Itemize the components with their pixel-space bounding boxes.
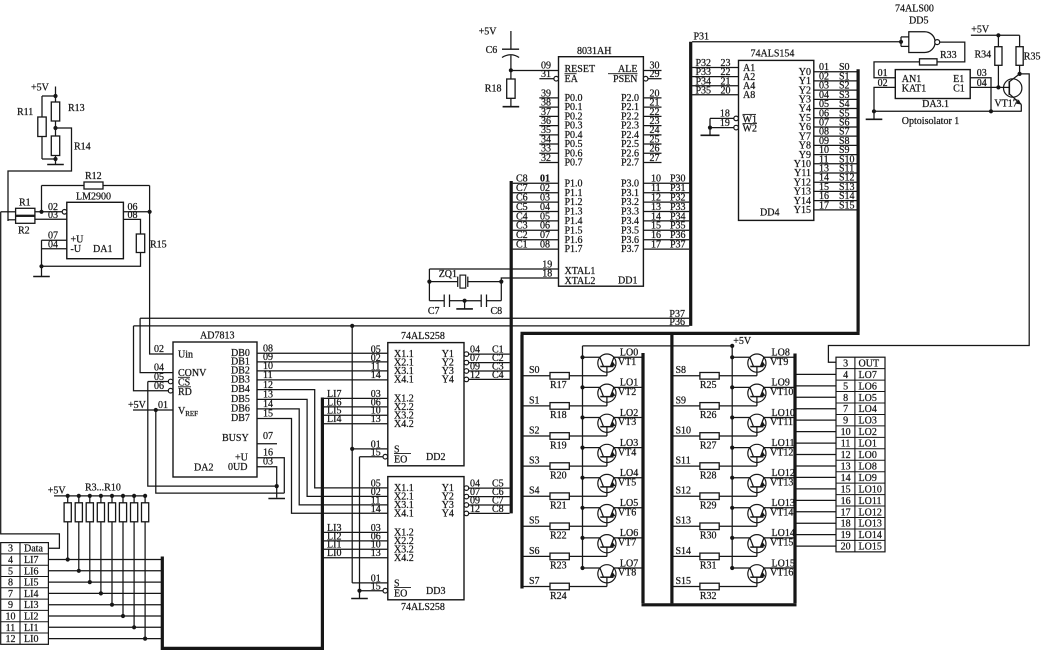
wire S input S1 bbox=[524, 405, 551, 407]
node DA1 ground junction bbox=[39, 264, 43, 268]
svg-text:19: 19 bbox=[841, 530, 851, 541]
svg-text:X4.1: X4.1 bbox=[394, 509, 414, 520]
wire collector VT4 to net LO3 bbox=[614, 447, 642, 449]
svg-text:LO13: LO13 bbox=[859, 519, 882, 530]
svg-text:VT2: VT2 bbox=[618, 387, 636, 398]
svg-text:20: 20 bbox=[841, 542, 851, 553]
wire DB1 to DD2 X2.1 bbox=[257, 361, 388, 363]
wire collector VT10 to net LO9 bbox=[764, 386, 794, 388]
wire Y1 to net S1 bbox=[814, 80, 857, 82]
wire DB2 to DD2 X3.1 bbox=[257, 370, 388, 372]
wire base of VT15 bbox=[719, 555, 757, 557]
wire NAND inputs tied to P31 bbox=[900, 37, 902, 47]
wire base of VT14 bbox=[719, 525, 757, 527]
wire P1.4 to C bus, net C4 bbox=[513, 220, 559, 222]
wire DB4 to DD3 X1.1 bbox=[257, 390, 388, 488]
svg-text:8031AH: 8031AH bbox=[577, 46, 611, 57]
svg-text:X4.2: X4.2 bbox=[394, 419, 414, 430]
node emitter bus tap VT14 bbox=[730, 506, 734, 510]
svg-text:12: 12 bbox=[6, 634, 16, 645]
svg-text:Y4: Y4 bbox=[442, 509, 454, 520]
resistor R17 bbox=[550, 373, 569, 380]
svg-text:17: 17 bbox=[819, 200, 829, 211]
wire S input S15 bbox=[673, 586, 700, 588]
bus P30-P37 thick vertical bbox=[689, 42, 692, 326]
wire P3.6 to P3 bus, net P36 bbox=[643, 239, 689, 241]
wire S input S14 bbox=[673, 555, 700, 557]
svg-text:15: 15 bbox=[841, 484, 851, 495]
svg-text:Uin: Uin bbox=[178, 350, 193, 361]
resistor R27 bbox=[700, 433, 719, 440]
wire LO13 to bus bbox=[797, 522, 837, 524]
svg-text:VT4: VT4 bbox=[618, 447, 636, 458]
node +5V junction bbox=[53, 94, 57, 98]
svg-text:LO5: LO5 bbox=[859, 393, 877, 404]
node S at P36 line bbox=[350, 324, 354, 328]
svg-text:03: 03 bbox=[263, 457, 273, 468]
wire collector VT9 to net LO8 bbox=[764, 356, 794, 358]
wire VT17 emitter to ground line bbox=[1020, 105, 1022, 112]
svg-text:P37: P37 bbox=[670, 240, 686, 251]
svg-text:LO12: LO12 bbox=[859, 507, 882, 518]
svg-text:+5V: +5V bbox=[971, 24, 990, 35]
wire emitter VT15 bbox=[732, 537, 750, 539]
node emitter bus tap VT9 bbox=[730, 355, 734, 359]
svg-text:Data: Data bbox=[24, 544, 43, 555]
svg-text:DA3.1: DA3.1 bbox=[922, 99, 949, 110]
svg-text:LO2: LO2 bbox=[859, 427, 877, 438]
svg-text:12: 12 bbox=[841, 450, 851, 461]
svg-text:VT8: VT8 bbox=[618, 568, 636, 579]
node NAND input junction bbox=[899, 40, 903, 44]
wire base of VT12 bbox=[719, 465, 757, 467]
wire P3.2 to P3 bus, net P32 bbox=[643, 201, 689, 203]
svg-text:W2: W2 bbox=[743, 124, 757, 135]
node R8 to LI2 wire bbox=[121, 614, 125, 618]
svg-text:XTAL1: XTAL1 bbox=[565, 266, 596, 277]
wire Y3 to net S3 bbox=[814, 98, 857, 100]
svg-text:16: 16 bbox=[841, 496, 851, 507]
svg-text:Optoisolator 1: Optoisolator 1 bbox=[902, 116, 960, 127]
svg-text:P36: P36 bbox=[669, 317, 685, 328]
wire LO8 to bus bbox=[797, 465, 837, 467]
svg-text:R34: R34 bbox=[975, 50, 992, 61]
node emitter bus tap VT8 bbox=[580, 566, 584, 570]
svg-text:R14: R14 bbox=[74, 142, 91, 153]
node emitter bus tap VT6 bbox=[580, 506, 584, 510]
wire P3.3 to P3 bus, net P33 bbox=[643, 211, 689, 213]
svg-text:R18: R18 bbox=[485, 84, 502, 95]
svg-text:R11: R11 bbox=[17, 107, 33, 118]
svg-text:C1: C1 bbox=[953, 84, 965, 95]
resistor R4 pull-up bbox=[77, 494, 81, 498]
wire Y11 to net S11 bbox=[814, 172, 857, 174]
wire reset to DD1 pin 09 bbox=[511, 70, 559, 72]
svg-text:DD3: DD3 bbox=[426, 586, 445, 597]
wire emitter VT7 bbox=[583, 537, 600, 539]
wire S input S3 bbox=[524, 465, 551, 467]
wire LI0 row to bus bbox=[48, 638, 162, 640]
wire emitter VT10 bbox=[732, 386, 750, 388]
resistor R21 bbox=[550, 493, 569, 500]
wire Y12 to net S12 bbox=[814, 181, 857, 183]
node E1 ground junction bbox=[989, 109, 993, 113]
node reset junction bbox=[509, 68, 513, 72]
svg-text:74ALS00: 74ALS00 bbox=[895, 4, 934, 15]
wire opto ground line to VT17 emitter bbox=[874, 110, 1022, 112]
svg-text:S4: S4 bbox=[529, 486, 540, 497]
wire R2 to pin 03 bbox=[35, 218, 67, 220]
svg-text:LM2900: LM2900 bbox=[76, 192, 111, 203]
ground under R18 bbox=[510, 98, 512, 106]
wire R11/R14 bottoms bbox=[41, 137, 43, 160]
svg-text:S7: S7 bbox=[529, 576, 540, 587]
svg-text:3: 3 bbox=[843, 358, 848, 369]
node emitter bus tap VT10 bbox=[730, 385, 734, 389]
ground under W1/W2 bbox=[709, 128, 711, 136]
svg-text:03: 03 bbox=[48, 210, 58, 221]
svg-text:74ALS258: 74ALS258 bbox=[401, 331, 445, 342]
svg-text:R21: R21 bbox=[550, 501, 567, 512]
wire LI7 to DD2 X1.2 bbox=[324, 397, 388, 399]
wire LO1 to bus bbox=[797, 442, 837, 444]
svg-text:DA2: DA2 bbox=[194, 463, 213, 474]
ground under R14 bbox=[55, 159, 57, 165]
node +5V rail R34 bbox=[996, 33, 1000, 37]
wire +5V rail to R11/R13 bbox=[42, 95, 56, 97]
svg-text:R23: R23 bbox=[550, 561, 567, 572]
wire emitter VT3 bbox=[583, 417, 600, 419]
pin 02 inverting circle bbox=[62, 210, 67, 215]
svg-text:VT12: VT12 bbox=[770, 447, 793, 458]
node W junction bbox=[708, 126, 712, 130]
bus LO8-LO15 thick vertical bbox=[793, 354, 796, 604]
svg-text:LI1: LI1 bbox=[24, 623, 38, 634]
wire base of VT8 bbox=[569, 586, 607, 588]
svg-text:VT6: VT6 bbox=[618, 508, 636, 519]
svg-text:LO1: LO1 bbox=[859, 439, 877, 450]
svg-text:KAT1: KAT1 bbox=[902, 84, 926, 95]
wire DA1 output down to DA2 Uin bbox=[150, 212, 173, 354]
wire LO11 to bus bbox=[797, 499, 837, 501]
svg-text:LO8: LO8 bbox=[859, 461, 877, 472]
svg-text:DD5: DD5 bbox=[909, 16, 928, 27]
wire LO0 to bus bbox=[797, 454, 837, 456]
wire NAND output to R33 bbox=[937, 42, 965, 62]
node CS/0UD ground junction bbox=[275, 484, 279, 488]
svg-text:14: 14 bbox=[371, 370, 381, 381]
node opto ground junction bbox=[872, 109, 876, 113]
node inverting input junction bbox=[39, 210, 43, 214]
svg-text:R24: R24 bbox=[550, 591, 567, 602]
transistor VT7 symbol bbox=[598, 535, 616, 553]
wire collector VT14 to net LO13 bbox=[764, 507, 794, 509]
svg-text:R35: R35 bbox=[1024, 52, 1041, 63]
wire R13-R14 junction bbox=[55, 121, 57, 136]
wire emitter VT14 bbox=[732, 507, 750, 509]
bus LO0-LO7 thick lines bbox=[641, 353, 644, 603]
svg-text:12: 12 bbox=[470, 370, 480, 381]
wire P1.3 to C bus, net C5 bbox=[513, 211, 559, 213]
wire LI4 row to bus bbox=[48, 592, 162, 594]
svg-text:X4.1: X4.1 bbox=[394, 375, 414, 386]
svg-text:9: 9 bbox=[843, 416, 848, 427]
transistor VT11 symbol bbox=[748, 414, 766, 432]
wire base of VT13 bbox=[719, 495, 757, 497]
resistor R26 bbox=[700, 403, 719, 410]
svg-text:R13: R13 bbox=[68, 103, 85, 114]
wire LO6 to bus bbox=[797, 385, 837, 387]
wire DB3 to DD2 X4.1 bbox=[257, 379, 388, 381]
wire LO2 to bus bbox=[797, 431, 837, 433]
ground under C7/C8 bbox=[464, 301, 466, 309]
wire base of VT6 bbox=[569, 525, 607, 527]
svg-text:A8: A8 bbox=[743, 90, 755, 101]
wire collector VT3 to net LO2 bbox=[614, 417, 642, 419]
svg-text:07: 07 bbox=[263, 431, 273, 442]
svg-text:S0: S0 bbox=[529, 365, 540, 376]
wire P3.5 to P3 bus, net P35 bbox=[643, 229, 689, 231]
resistor R25 bbox=[700, 373, 719, 380]
wire LI5 row to bus bbox=[48, 581, 162, 583]
svg-text:R3...R10: R3...R10 bbox=[85, 483, 121, 494]
svg-text:+5V: +5V bbox=[128, 400, 147, 411]
node emitter bus tap VT13 bbox=[730, 476, 734, 480]
wire LO15 to bus bbox=[797, 545, 837, 547]
node emitter bus tap VT12 bbox=[730, 446, 734, 450]
node S at DD2 bbox=[350, 447, 354, 451]
optoisolator U DA3.1 box bbox=[895, 70, 970, 99]
svg-text:R12: R12 bbox=[85, 171, 102, 182]
svg-text:S9: S9 bbox=[676, 395, 687, 406]
ground under DA1 bbox=[41, 266, 43, 276]
wire Y5 to net S5 bbox=[814, 117, 857, 119]
svg-text:LO14: LO14 bbox=[859, 530, 882, 541]
svg-text:R28: R28 bbox=[700, 470, 717, 481]
wire net P34 to A4 bbox=[692, 85, 738, 87]
wire feedback right leg bbox=[149, 186, 151, 212]
resistor R8 pull-up bbox=[121, 494, 125, 498]
wire P1.1 to C bus, net C7 bbox=[513, 192, 559, 194]
svg-text:08: 08 bbox=[540, 240, 550, 251]
svg-text:5: 5 bbox=[8, 566, 13, 577]
resistor R20 bbox=[550, 463, 569, 470]
svg-text:LI2: LI2 bbox=[24, 612, 38, 623]
svg-text:ZQ1: ZQ1 bbox=[439, 269, 457, 280]
svg-text:14: 14 bbox=[841, 473, 851, 484]
wire P1.6 to C bus, net C2 bbox=[513, 239, 559, 241]
wire P3.0 to P3 bus, net P30 bbox=[643, 182, 689, 184]
svg-text:C6: C6 bbox=[486, 45, 498, 56]
op-amp U DA1 LM2900 box bbox=[67, 202, 124, 258]
svg-text:VT14: VT14 bbox=[770, 508, 793, 519]
wire S input S2 bbox=[524, 435, 551, 437]
transistor VT6 symbol bbox=[598, 504, 616, 522]
svg-text:LO6: LO6 bbox=[859, 381, 877, 392]
svg-text:S6: S6 bbox=[529, 546, 540, 557]
wire +5V pull-up rail bbox=[54, 495, 145, 497]
svg-text:18: 18 bbox=[841, 519, 851, 530]
transistor VT13 symbol bbox=[748, 474, 766, 492]
transistor VT5 symbol bbox=[598, 474, 616, 492]
node crystal left bbox=[427, 280, 431, 284]
svg-text:11: 11 bbox=[841, 439, 851, 450]
node +5V feed right corner bbox=[730, 344, 734, 348]
resistor R31 bbox=[700, 553, 719, 560]
node R13/R14 divider tap bbox=[53, 126, 57, 130]
node ground junction under R14 bbox=[53, 157, 57, 161]
wire net P33 to A2 bbox=[692, 76, 738, 78]
svg-text:S5: S5 bbox=[529, 516, 540, 527]
svg-text:Y15: Y15 bbox=[794, 205, 811, 216]
resistor R9 pull-up bbox=[132, 494, 136, 498]
svg-text:17: 17 bbox=[651, 240, 661, 251]
wire base of VT5 bbox=[569, 495, 607, 497]
wire collector VT12 to net LO11 bbox=[764, 447, 794, 449]
svg-text:74ALS258: 74ALS258 bbox=[401, 602, 445, 613]
wire P1.0 to C bus, net C8 bbox=[513, 182, 559, 184]
svg-text:LI6: LI6 bbox=[24, 566, 38, 577]
node DA1 output junction bbox=[148, 210, 152, 214]
wire base of VT3 bbox=[569, 435, 607, 437]
resistor R23 bbox=[550, 553, 569, 560]
wire LI4 to DD2 X4.2 bbox=[324, 423, 388, 425]
wire S input S9 bbox=[673, 405, 700, 407]
wire net P36 to RD and S bbox=[134, 325, 690, 327]
wire LO10 to bus bbox=[797, 488, 837, 490]
node R9 to LI1 wire bbox=[132, 625, 136, 629]
node VREF junction bbox=[154, 408, 158, 412]
node XTAL cap ground junction bbox=[463, 299, 467, 303]
resistor R10 pull-up bbox=[143, 494, 147, 498]
svg-text:Y4: Y4 bbox=[442, 375, 454, 386]
svg-text:R25: R25 bbox=[700, 380, 717, 391]
svg-text:4: 4 bbox=[8, 555, 13, 566]
node R5 to LI5 wire bbox=[88, 580, 92, 584]
svg-text:R2: R2 bbox=[18, 226, 30, 237]
wire S input S12 bbox=[673, 495, 700, 497]
bus LI0-LI7 thick line bbox=[162, 398, 322, 649]
wire LI1 row to bus bbox=[48, 626, 162, 628]
resistor R22 bbox=[550, 523, 569, 530]
wire W1/W2 to ground bbox=[709, 118, 711, 127]
transistor VT14 symbol bbox=[748, 504, 766, 522]
svg-text:S14: S14 bbox=[676, 546, 692, 557]
svg-text:74ALS154: 74ALS154 bbox=[751, 49, 795, 60]
wire collector VT16 to net LO15 bbox=[764, 567, 794, 569]
wire LI6 to DD2 X2.2 bbox=[324, 406, 388, 408]
svg-text:S2: S2 bbox=[529, 425, 540, 436]
node base/R34 junction bbox=[996, 85, 1000, 89]
node R4 to LI6 wire bbox=[77, 569, 81, 573]
wire R1 to pin 02 bbox=[35, 211, 62, 213]
svg-text:VT1: VT1 bbox=[618, 357, 636, 368]
decoder DD4 74ALS154 box bbox=[739, 60, 814, 220]
svg-text:LI0: LI0 bbox=[24, 634, 38, 645]
ground under DA2 bbox=[276, 497, 278, 498]
svg-text:LO11: LO11 bbox=[859, 496, 882, 507]
wire base of VT11 bbox=[719, 435, 757, 437]
svg-text:20: 20 bbox=[721, 85, 731, 96]
bus C1-C8 thick vertical bbox=[510, 181, 513, 513]
node VT17 collector junction bbox=[1018, 72, 1022, 76]
wire EO chain DD2-DD3 to ground bbox=[360, 456, 383, 458]
svg-text:LI0: LI0 bbox=[327, 548, 341, 559]
svg-text:S10: S10 bbox=[676, 425, 692, 436]
resistor R15 bbox=[136, 234, 144, 253]
svg-text:VT5: VT5 bbox=[618, 477, 636, 488]
wire S input S7 bbox=[524, 586, 551, 588]
wire LO14 to bus bbox=[797, 534, 837, 536]
wire DB5 to DD3 X2.1 bbox=[257, 399, 388, 496]
wire collector VT5 to net LO4 bbox=[614, 477, 642, 479]
wire Y13 to net S13 bbox=[814, 190, 857, 192]
node crystal right bbox=[499, 280, 503, 284]
svg-text:0UD: 0UD bbox=[228, 462, 247, 473]
wire emitter VT6 bbox=[583, 507, 600, 509]
wire VT17 collector to OUT pin 3 bbox=[828, 74, 1029, 362]
transistor VT3 symbol bbox=[598, 414, 616, 432]
svg-text:01: 01 bbox=[158, 400, 168, 411]
svg-text:VT3: VT3 bbox=[618, 417, 636, 428]
transistor VT15 symbol bbox=[748, 535, 766, 553]
wire emitter VT16 bbox=[732, 567, 750, 569]
svg-text:DD4: DD4 bbox=[760, 207, 779, 218]
wire Y8 to net S8 bbox=[814, 144, 857, 146]
wire base of VT10 bbox=[719, 405, 757, 407]
wire P1.5 to C bus, net C3 bbox=[513, 229, 559, 231]
wire emitter VT12 bbox=[732, 447, 750, 449]
resistor R12 (feedback) bbox=[42, 185, 85, 187]
svg-text:RD: RD bbox=[178, 387, 192, 398]
wire R33 to opto anode pin 01 bbox=[874, 62, 920, 78]
svg-text:PSEN: PSEN bbox=[613, 74, 637, 85]
svg-text:BUSY: BUSY bbox=[222, 433, 249, 444]
svg-text:VT11: VT11 bbox=[770, 417, 793, 428]
wire collector VT7 to net LO6 bbox=[614, 537, 642, 539]
wire CS down-right to ground node bbox=[148, 382, 277, 487]
wire base of VT9 bbox=[719, 375, 757, 377]
node EO at DD3 bbox=[357, 589, 361, 593]
svg-text:VT17: VT17 bbox=[994, 99, 1017, 110]
wire pins 07/04 to ground bbox=[41, 240, 43, 266]
wire P3.7 to P3 bus, net P37 bbox=[643, 248, 689, 250]
svg-text:14: 14 bbox=[371, 504, 381, 515]
wire emitter VT11 bbox=[732, 417, 750, 419]
svg-text:8: 8 bbox=[843, 393, 848, 404]
wire divider tap to left rail bbox=[8, 128, 72, 221]
svg-text:R22: R22 bbox=[550, 531, 567, 542]
node R7 to LI3 wire bbox=[110, 603, 114, 607]
svg-text:LI5: LI5 bbox=[24, 578, 38, 589]
svg-text:LO0: LO0 bbox=[859, 450, 877, 461]
svg-text:DA1: DA1 bbox=[93, 244, 112, 255]
wire emitter VT2 bbox=[583, 386, 600, 388]
transistor Q VT17 bbox=[1004, 79, 1022, 97]
svg-text:S15: S15 bbox=[676, 576, 692, 587]
transistor VT1 symbol bbox=[598, 354, 616, 372]
svg-text:LO10: LO10 bbox=[859, 484, 882, 495]
svg-text:LO4: LO4 bbox=[859, 404, 877, 415]
wire P1.7 to C bus, net C1 bbox=[513, 248, 559, 250]
svg-text:02: 02 bbox=[154, 344, 164, 355]
svg-text:12: 12 bbox=[470, 504, 480, 515]
wire LO3 to bus bbox=[797, 419, 837, 421]
svg-text:P2.7: P2.7 bbox=[621, 158, 639, 169]
svg-text:LI4: LI4 bbox=[327, 414, 341, 425]
transistor VT2 symbol bbox=[598, 384, 616, 402]
wire emitter VT1 bbox=[583, 356, 600, 358]
